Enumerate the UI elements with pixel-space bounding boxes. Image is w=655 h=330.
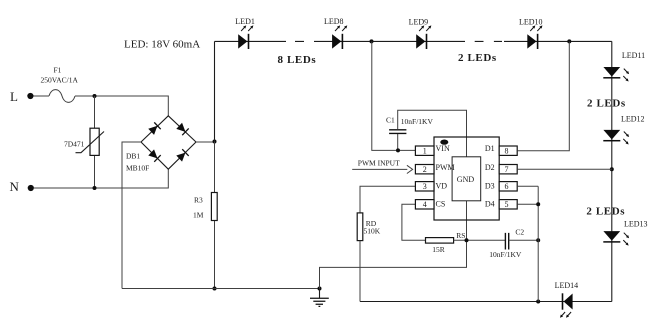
svg-text:5: 5: [505, 200, 509, 209]
svg-text:10nF/1KV: 10nF/1KV: [489, 250, 522, 259]
svg-text:1M: 1M: [193, 211, 204, 220]
resistor RS 15R: [426, 231, 506, 254]
svg-text:D3: D3: [485, 181, 495, 190]
LED9: [409, 18, 433, 50]
PWM INPUT arrow: [352, 159, 412, 174]
svg-text:C2: C2: [515, 228, 524, 237]
svg-text:LED12: LED12: [621, 115, 645, 124]
svg-text:LED13: LED13: [624, 220, 648, 229]
svg-text:VD: VD: [436, 181, 448, 190]
svg-text:1: 1: [423, 147, 427, 156]
capacitor C2 10nF/1KV: [489, 228, 538, 260]
bridge rectifier DB1 MB10F: [126, 116, 196, 173]
wire C1 top to IC GND center: [398, 110, 467, 157]
junction LED chain to D2 pin 7: [610, 167, 614, 171]
wire N to bridge bottom vertex: [34, 169, 168, 188]
junction pin 5 on drop: [536, 202, 540, 206]
pin 4 box: [415, 200, 434, 210]
junction top rail to D1 pin 8: [567, 39, 571, 43]
wire D3 pin 6: [517, 185, 538, 187]
LED12: [603, 115, 644, 146]
junction RS wire at GND line: [465, 238, 469, 242]
junction N-varistor: [93, 186, 97, 190]
svg-text:10nF/1KV: 10nF/1KV: [401, 117, 434, 126]
wire right LED chain vertical: [611, 41, 613, 301]
LED11: [603, 51, 645, 83]
varistor 7D471: [64, 96, 104, 188]
svg-text:4: 4: [423, 200, 427, 209]
junction C2 at pin5/6 drop: [536, 238, 540, 242]
svg-text:RS: RS: [456, 231, 465, 240]
pin 7 box: [499, 165, 517, 175]
wire DC+ riser: [214, 41, 216, 141]
svg-text:510K: 510K: [364, 227, 381, 236]
svg-text:2 LEDs: 2 LEDs: [586, 206, 625, 218]
LED10: [519, 18, 544, 50]
svg-text:F1: F1: [54, 66, 62, 75]
wire LED return rail: [360, 301, 612, 303]
svg-text:2 LEDs: 2 LEDs: [458, 52, 497, 64]
svg-text:2 LEDs: 2 LEDs: [587, 98, 626, 110]
pin 6 box: [499, 182, 517, 192]
ground symbol: [310, 289, 329, 307]
junction ground node: [318, 287, 322, 291]
svg-text:R3: R3: [194, 196, 203, 205]
wire D4 pin 5: [517, 203, 538, 205]
svg-text:D4: D4: [485, 200, 495, 209]
pin 8 box: [499, 146, 517, 156]
wire bottom left rail: [122, 288, 320, 290]
wire GND return from IC: [320, 201, 467, 289]
wire fuse to bridge top vertex: [75, 96, 168, 116]
IC U1 body: [434, 137, 499, 220]
wire bridge left vertex to bottom rail: [122, 142, 141, 289]
junction LED return to pins 5/6: [536, 300, 540, 304]
wire pins 5/6 drop to LED return: [537, 186, 539, 301]
svg-text:GND: GND: [457, 175, 475, 184]
svg-text:C1: C1: [386, 116, 395, 125]
pin 5 box: [499, 200, 517, 210]
svg-text:LED11: LED11: [622, 51, 645, 60]
junction R3 bottom rail: [213, 287, 217, 291]
wire VIN from top rail to pin 1: [372, 41, 416, 150]
svg-text:7D471: 7D471: [64, 140, 85, 149]
svg-text:MB10F: MB10F: [126, 164, 149, 173]
LED8: [324, 17, 348, 49]
svg-text:DB1: DB1: [126, 152, 140, 161]
svg-text:8 LEDs: 8 LEDs: [278, 54, 317, 66]
pin 1 box: [415, 146, 434, 156]
IC GND pad box: [452, 157, 481, 201]
LED13: [603, 220, 647, 247]
svg-text:15R: 15R: [432, 245, 445, 254]
pin 2 box: [415, 165, 434, 175]
svg-text:LED: 18V 60mA: LED: 18V 60mA: [124, 39, 200, 51]
svg-text:7: 7: [505, 165, 509, 174]
wire CS pin 4 to RS: [402, 204, 426, 240]
wire bridge right vertex to DC+ node: [196, 141, 215, 143]
svg-text:N: N: [10, 179, 20, 194]
svg-text:CS: CS: [436, 200, 446, 209]
wire VD pin 3 to RD: [360, 186, 415, 213]
junction top rail to VIN: [370, 39, 374, 43]
junction L-varistor: [93, 94, 97, 98]
wire D1 pin 8 to top rail: [517, 41, 569, 150]
svg-text:D2: D2: [485, 163, 495, 172]
terminal L: [10, 89, 34, 104]
resistor R3 1M: [193, 142, 217, 289]
svg-text:LED10: LED10: [519, 18, 543, 27]
LED1: [235, 17, 255, 49]
svg-text:LED14: LED14: [555, 281, 579, 290]
wire top rail (dashed continuation sections): [215, 40, 612, 42]
wire L to fuse: [34, 95, 50, 97]
pin 3 box: [415, 182, 434, 192]
terminal N: [10, 179, 34, 194]
svg-text:6: 6: [505, 182, 509, 191]
svg-text:250VAC/1A: 250VAC/1A: [41, 76, 79, 85]
svg-text:PWM: PWM: [436, 163, 455, 172]
svg-text:LED8: LED8: [324, 17, 344, 26]
resistor RD 510K: [357, 213, 381, 302]
svg-text:L: L: [10, 89, 18, 104]
LED14: [555, 281, 579, 319]
junction DC+ node: [213, 140, 217, 144]
svg-text:8: 8: [505, 147, 509, 156]
wire D2 pin 7 to LED chain: [517, 168, 612, 170]
svg-text:D1: D1: [485, 144, 495, 153]
svg-text:LED1: LED1: [235, 17, 255, 26]
capacitor C1 10nF/1KV: [386, 116, 433, 151]
junction C1 on VIN wire: [396, 148, 400, 152]
fuse F1 250VAC/1A: [41, 66, 79, 103]
svg-text:VIN: VIN: [436, 144, 450, 153]
svg-text:LED9: LED9: [409, 18, 429, 27]
svg-text:PWM INPUT: PWM INPUT: [358, 159, 400, 168]
svg-text:3: 3: [423, 182, 427, 191]
svg-text:2: 2: [423, 165, 427, 174]
